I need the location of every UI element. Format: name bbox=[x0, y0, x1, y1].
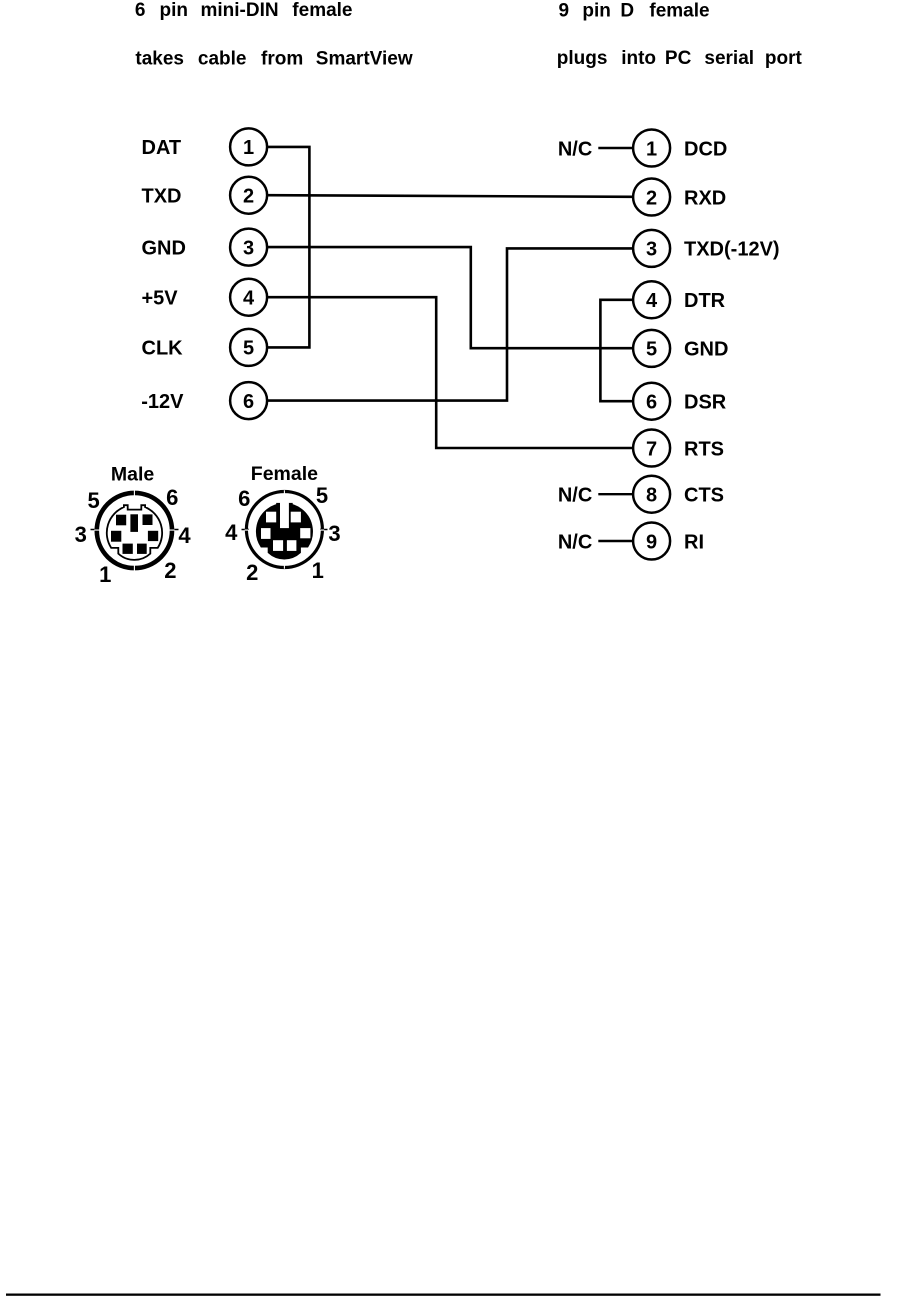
Female socket hole 4 bbox=[261, 528, 271, 539]
svg-text:RI: RI bbox=[684, 531, 704, 553]
svg-text:DCD: DCD bbox=[684, 138, 727, 160]
Male pin 5 contact bbox=[116, 515, 126, 526]
N/C stub wire pin 1 bbox=[598, 147, 633, 149]
wire TXD to RXD bbox=[268, 195, 633, 197]
svg-text:D: D bbox=[620, 0, 634, 21]
svg-text:GND: GND bbox=[142, 237, 186, 259]
right pin 9 circle bbox=[633, 523, 670, 560]
Male ring registration hairlines bbox=[94, 489, 174, 571]
svg-text:6: 6 bbox=[243, 391, 254, 413]
right pin 1 circle bbox=[633, 130, 670, 167]
Male pin 6 contact bbox=[143, 514, 153, 525]
svg-text:takes: takes bbox=[135, 48, 184, 69]
svg-text:1: 1 bbox=[312, 558, 324, 583]
svg-text:3: 3 bbox=[243, 237, 254, 259]
svg-text:4: 4 bbox=[646, 290, 658, 312]
svg-text:mini-DIN: mini-DIN bbox=[201, 0, 279, 21]
svg-text:pin: pin bbox=[582, 0, 611, 21]
Male connector outer ring bbox=[97, 493, 172, 568]
svg-text:into: into bbox=[621, 48, 656, 69]
svg-text:cable: cable bbox=[198, 48, 247, 69]
svg-text:GND: GND bbox=[684, 339, 728, 361]
svg-text:female: female bbox=[649, 0, 709, 21]
svg-text:CLK: CLK bbox=[142, 338, 184, 360]
svg-text:6: 6 bbox=[135, 0, 146, 21]
Female key slot hole bbox=[280, 503, 289, 528]
svg-text:1: 1 bbox=[646, 138, 657, 160]
svg-text:6: 6 bbox=[646, 392, 657, 414]
header right line 2: plugs into PC serial port bbox=[557, 48, 803, 69]
N/C stub wire pin 9 bbox=[598, 540, 633, 542]
svg-text:3: 3 bbox=[75, 522, 87, 547]
svg-text:Female: Female bbox=[251, 463, 318, 485]
svg-text:pin: pin bbox=[160, 0, 189, 21]
svg-text:serial: serial bbox=[704, 48, 754, 69]
svg-text:2: 2 bbox=[246, 560, 258, 585]
Female shield block bbox=[257, 504, 313, 559]
svg-text:2: 2 bbox=[164, 558, 176, 583]
Female socket hole 6 bbox=[266, 512, 276, 523]
svg-text:9: 9 bbox=[646, 531, 657, 553]
svg-text:RTS: RTS bbox=[684, 438, 724, 460]
svg-text:DAT: DAT bbox=[142, 137, 182, 159]
svg-text:N/C: N/C bbox=[558, 531, 592, 553]
left pin 3 circle bbox=[230, 229, 267, 266]
svg-text:4: 4 bbox=[243, 288, 255, 310]
svg-text:3: 3 bbox=[328, 521, 340, 546]
Female socket hole 3 bbox=[300, 528, 310, 538]
Male pin 3 contact bbox=[111, 531, 121, 542]
Female ring registration hairlines bbox=[245, 490, 325, 568]
Male pin 2 contact bbox=[137, 544, 147, 554]
svg-text:SmartView: SmartView bbox=[316, 48, 413, 69]
right pin 8 circle bbox=[633, 476, 670, 513]
right pin 2 circle bbox=[633, 179, 670, 216]
Female connector outer ring bbox=[246, 492, 322, 568]
svg-text:+5V: +5V bbox=[142, 288, 179, 310]
svg-text:-12V: -12V bbox=[141, 391, 184, 413]
header left line 1: 6 pin mini-DIN female bbox=[135, 0, 353, 21]
left pin 6 circle bbox=[230, 382, 267, 419]
Male pin 4 contact bbox=[148, 531, 158, 541]
right pin 6 circle bbox=[633, 383, 670, 420]
svg-text:8: 8 bbox=[646, 485, 657, 507]
wire GND to GND bbox=[268, 247, 633, 348]
svg-text:port: port bbox=[765, 48, 803, 69]
Male pin 1 contact bbox=[123, 544, 133, 554]
svg-text:4: 4 bbox=[225, 520, 238, 545]
header right line 1: 9 pin D female bbox=[559, 0, 710, 21]
svg-text:RXD: RXD bbox=[684, 187, 726, 209]
svg-text:6: 6 bbox=[166, 485, 178, 510]
Male connector side ticks bbox=[91, 529, 179, 531]
svg-text:female: female bbox=[292, 0, 352, 21]
svg-text:1: 1 bbox=[243, 137, 254, 159]
svg-text:plugs: plugs bbox=[557, 48, 608, 69]
svg-text:Male: Male bbox=[111, 464, 155, 486]
svg-text:6: 6 bbox=[238, 486, 250, 511]
svg-text:DTR: DTR bbox=[684, 290, 726, 312]
wire DAT-CLK loop bbox=[268, 147, 310, 348]
N/C stub wire pin 8 bbox=[598, 493, 633, 495]
header left line 2: takes cable from SmartView bbox=[135, 48, 412, 69]
right pin 3 circle bbox=[633, 230, 670, 267]
Female socket hole 5 bbox=[291, 512, 301, 523]
svg-text:9: 9 bbox=[559, 0, 570, 21]
Male connector shield outline bbox=[107, 505, 162, 560]
svg-text:5: 5 bbox=[646, 339, 657, 361]
svg-text:7: 7 bbox=[646, 438, 657, 460]
svg-text:N/C: N/C bbox=[558, 485, 592, 507]
wire -12V to TXD(-12V) bbox=[268, 248, 633, 400]
right pin 5 circle bbox=[633, 330, 670, 367]
Female socket hole 2 bbox=[273, 540, 283, 551]
right pin 7 circle bbox=[633, 430, 670, 467]
Female key ear tabs bbox=[276, 503, 280, 508]
svg-text:1: 1 bbox=[99, 562, 111, 587]
svg-text:5: 5 bbox=[87, 488, 99, 513]
Male key slot bbox=[130, 514, 138, 532]
right pin 4 circle bbox=[633, 281, 670, 318]
svg-text:2: 2 bbox=[243, 186, 254, 208]
svg-text:5: 5 bbox=[243, 338, 254, 360]
svg-text:TXD: TXD bbox=[142, 186, 182, 208]
wire DTR-DSR loop bbox=[600, 300, 632, 401]
left pin 4 circle bbox=[230, 279, 267, 316]
svg-text:PC: PC bbox=[665, 48, 692, 69]
svg-text:from: from bbox=[261, 48, 303, 69]
svg-text:TXD(-12V): TXD(-12V) bbox=[684, 239, 780, 261]
svg-text:DSR: DSR bbox=[684, 392, 727, 414]
Female socket hole 1 bbox=[287, 540, 297, 551]
Female connector side ticks bbox=[242, 529, 328, 531]
svg-text:CTS: CTS bbox=[684, 485, 724, 507]
svg-text:4: 4 bbox=[178, 523, 191, 548]
left pin 1 circle bbox=[230, 128, 267, 165]
svg-text:2: 2 bbox=[646, 187, 657, 209]
left pin 2 circle bbox=[230, 177, 267, 214]
svg-text:3: 3 bbox=[646, 239, 657, 261]
left pin 5 circle bbox=[230, 329, 267, 366]
svg-text:N/C: N/C bbox=[558, 138, 592, 160]
bottom rule bbox=[6, 1294, 881, 1296]
wire +5V to RTS bbox=[268, 297, 633, 448]
svg-text:5: 5 bbox=[316, 483, 328, 508]
